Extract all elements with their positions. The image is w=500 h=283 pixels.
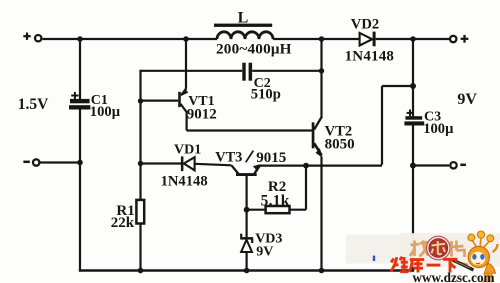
transistor VT2 [312, 116, 355, 157]
node VD1 branch [138, 161, 143, 166]
svg-text:1N4148: 1N4148 [161, 173, 208, 189]
node rail VD3 [244, 268, 250, 274]
wire VT2 emitter column to rail [320, 157, 322, 271]
watermark text weikuyixia [391, 257, 458, 273]
wire mid horizontal y71 right of C2 [252, 70, 321, 72]
wire top rail right [376, 38, 449, 40]
resistor R2 [261, 179, 290, 213]
capacitor C2 [242, 63, 281, 103]
wire VT3 collector drop [246, 175, 248, 209]
svg-text:L: L [238, 10, 249, 27]
node rail VT2 [319, 268, 325, 274]
zener diode VD3 [240, 232, 282, 260]
node C2 right [319, 68, 324, 73]
wire C1 column lower [79, 109, 81, 271]
wire input minus lead [40, 161, 80, 163]
svg-text:1.5V: 1.5V [18, 96, 49, 113]
terminal input plus [35, 35, 41, 41]
node top rail VT2 [319, 36, 325, 42]
wire VT2 collector column [320, 39, 322, 117]
node R2 riser [303, 163, 309, 169]
capacitor C1 [69, 92, 121, 120]
capacitor C3 [404, 109, 454, 137]
svg-text:VT3: VT3 [215, 149, 242, 165]
watermark logo group [346, 231, 500, 283]
wire C1 column upper [79, 39, 81, 100]
wire R2 right lead [290, 209, 306, 211]
wire top rail left [42, 38, 217, 40]
terminal output plus [450, 36, 456, 42]
wire output minus lead [413, 164, 449, 166]
watermark mascot [452, 231, 498, 283]
svg-text:5.1k: 5.1k [261, 192, 290, 209]
node VT1 base [138, 98, 143, 103]
wire feedback bus horizontal [259, 165, 382, 167]
svg-text:9V: 9V [457, 91, 477, 108]
watermark blue tick [373, 256, 375, 261]
node feedback top [410, 83, 416, 89]
terminal output minus [450, 162, 456, 168]
svg-text:www.dzsc.com: www.dzsc.com [413, 270, 495, 283]
node rail R1 [138, 268, 144, 274]
svg-text:VD1: VD1 [174, 143, 201, 158]
svg-text:1N4148: 1N4148 [345, 49, 395, 65]
wire R1 column upper [139, 70, 141, 200]
watermark char zhao (gray outline) [410, 241, 429, 257]
watermark pale backdrop [346, 235, 500, 264]
wire VD1 left lead [141, 162, 182, 164]
svg-text:510p: 510p [251, 86, 281, 102]
node top rail C1 [77, 36, 83, 42]
inductor L [214, 10, 292, 58]
watermark char pian (gray outline) [452, 241, 465, 258]
wire feedback top horizontal [382, 85, 413, 87]
svg-text:22k: 22k [111, 215, 135, 231]
transistor VT1 [178, 89, 217, 123]
wire mid horizontal y71 left of C2 [141, 70, 243, 72]
wire R1 column lower [139, 224, 141, 271]
wire R2 riser [305, 166, 307, 210]
wire top rail mid [273, 38, 360, 40]
diode VD2 [345, 16, 395, 64]
wire VD3 upper lead [246, 210, 248, 238]
transistor VT3 [215, 149, 286, 176]
terminal input minus [33, 159, 39, 165]
svg-text:9015: 9015 [256, 150, 286, 166]
node top rail C3 [410, 36, 416, 42]
wire VT1 emitter vertical [185, 39, 187, 89]
wire VD3 lower lead [246, 252, 248, 271]
wire VT1 collector drop [186, 112, 188, 131]
svg-text:200~400μH: 200~400μH [216, 41, 292, 58]
wire C3 column upper [412, 39, 414, 117]
wire bottom rail [79, 269, 414, 272]
wire VT1-to-VT2 horizontal [187, 129, 312, 131]
svg-text:100μ: 100μ [423, 121, 454, 137]
diode VD1 [161, 143, 208, 190]
svg-text:100μ: 100μ [90, 104, 121, 120]
wire VD1 right lead to VT3 [195, 164, 232, 166]
node output minus [410, 163, 416, 169]
resistor R1 [111, 200, 144, 231]
wire feedback riser vertical [381, 86, 383, 165]
wire C3 column lower [412, 125, 414, 271]
svg-text:8050: 8050 [325, 137, 355, 153]
wire R2 left lead [247, 209, 266, 211]
node top rail VT1 [183, 36, 189, 42]
node input minus [77, 160, 83, 166]
watermark pen [452, 260, 474, 271]
svg-text:9V: 9V [256, 244, 273, 259]
wire VT1 base lead [141, 99, 179, 101]
svg-text:9012: 9012 [187, 106, 217, 122]
svg-text:VD2: VD2 [351, 16, 379, 32]
node R2 left [244, 207, 250, 213]
watermark red circle seal [427, 236, 451, 260]
